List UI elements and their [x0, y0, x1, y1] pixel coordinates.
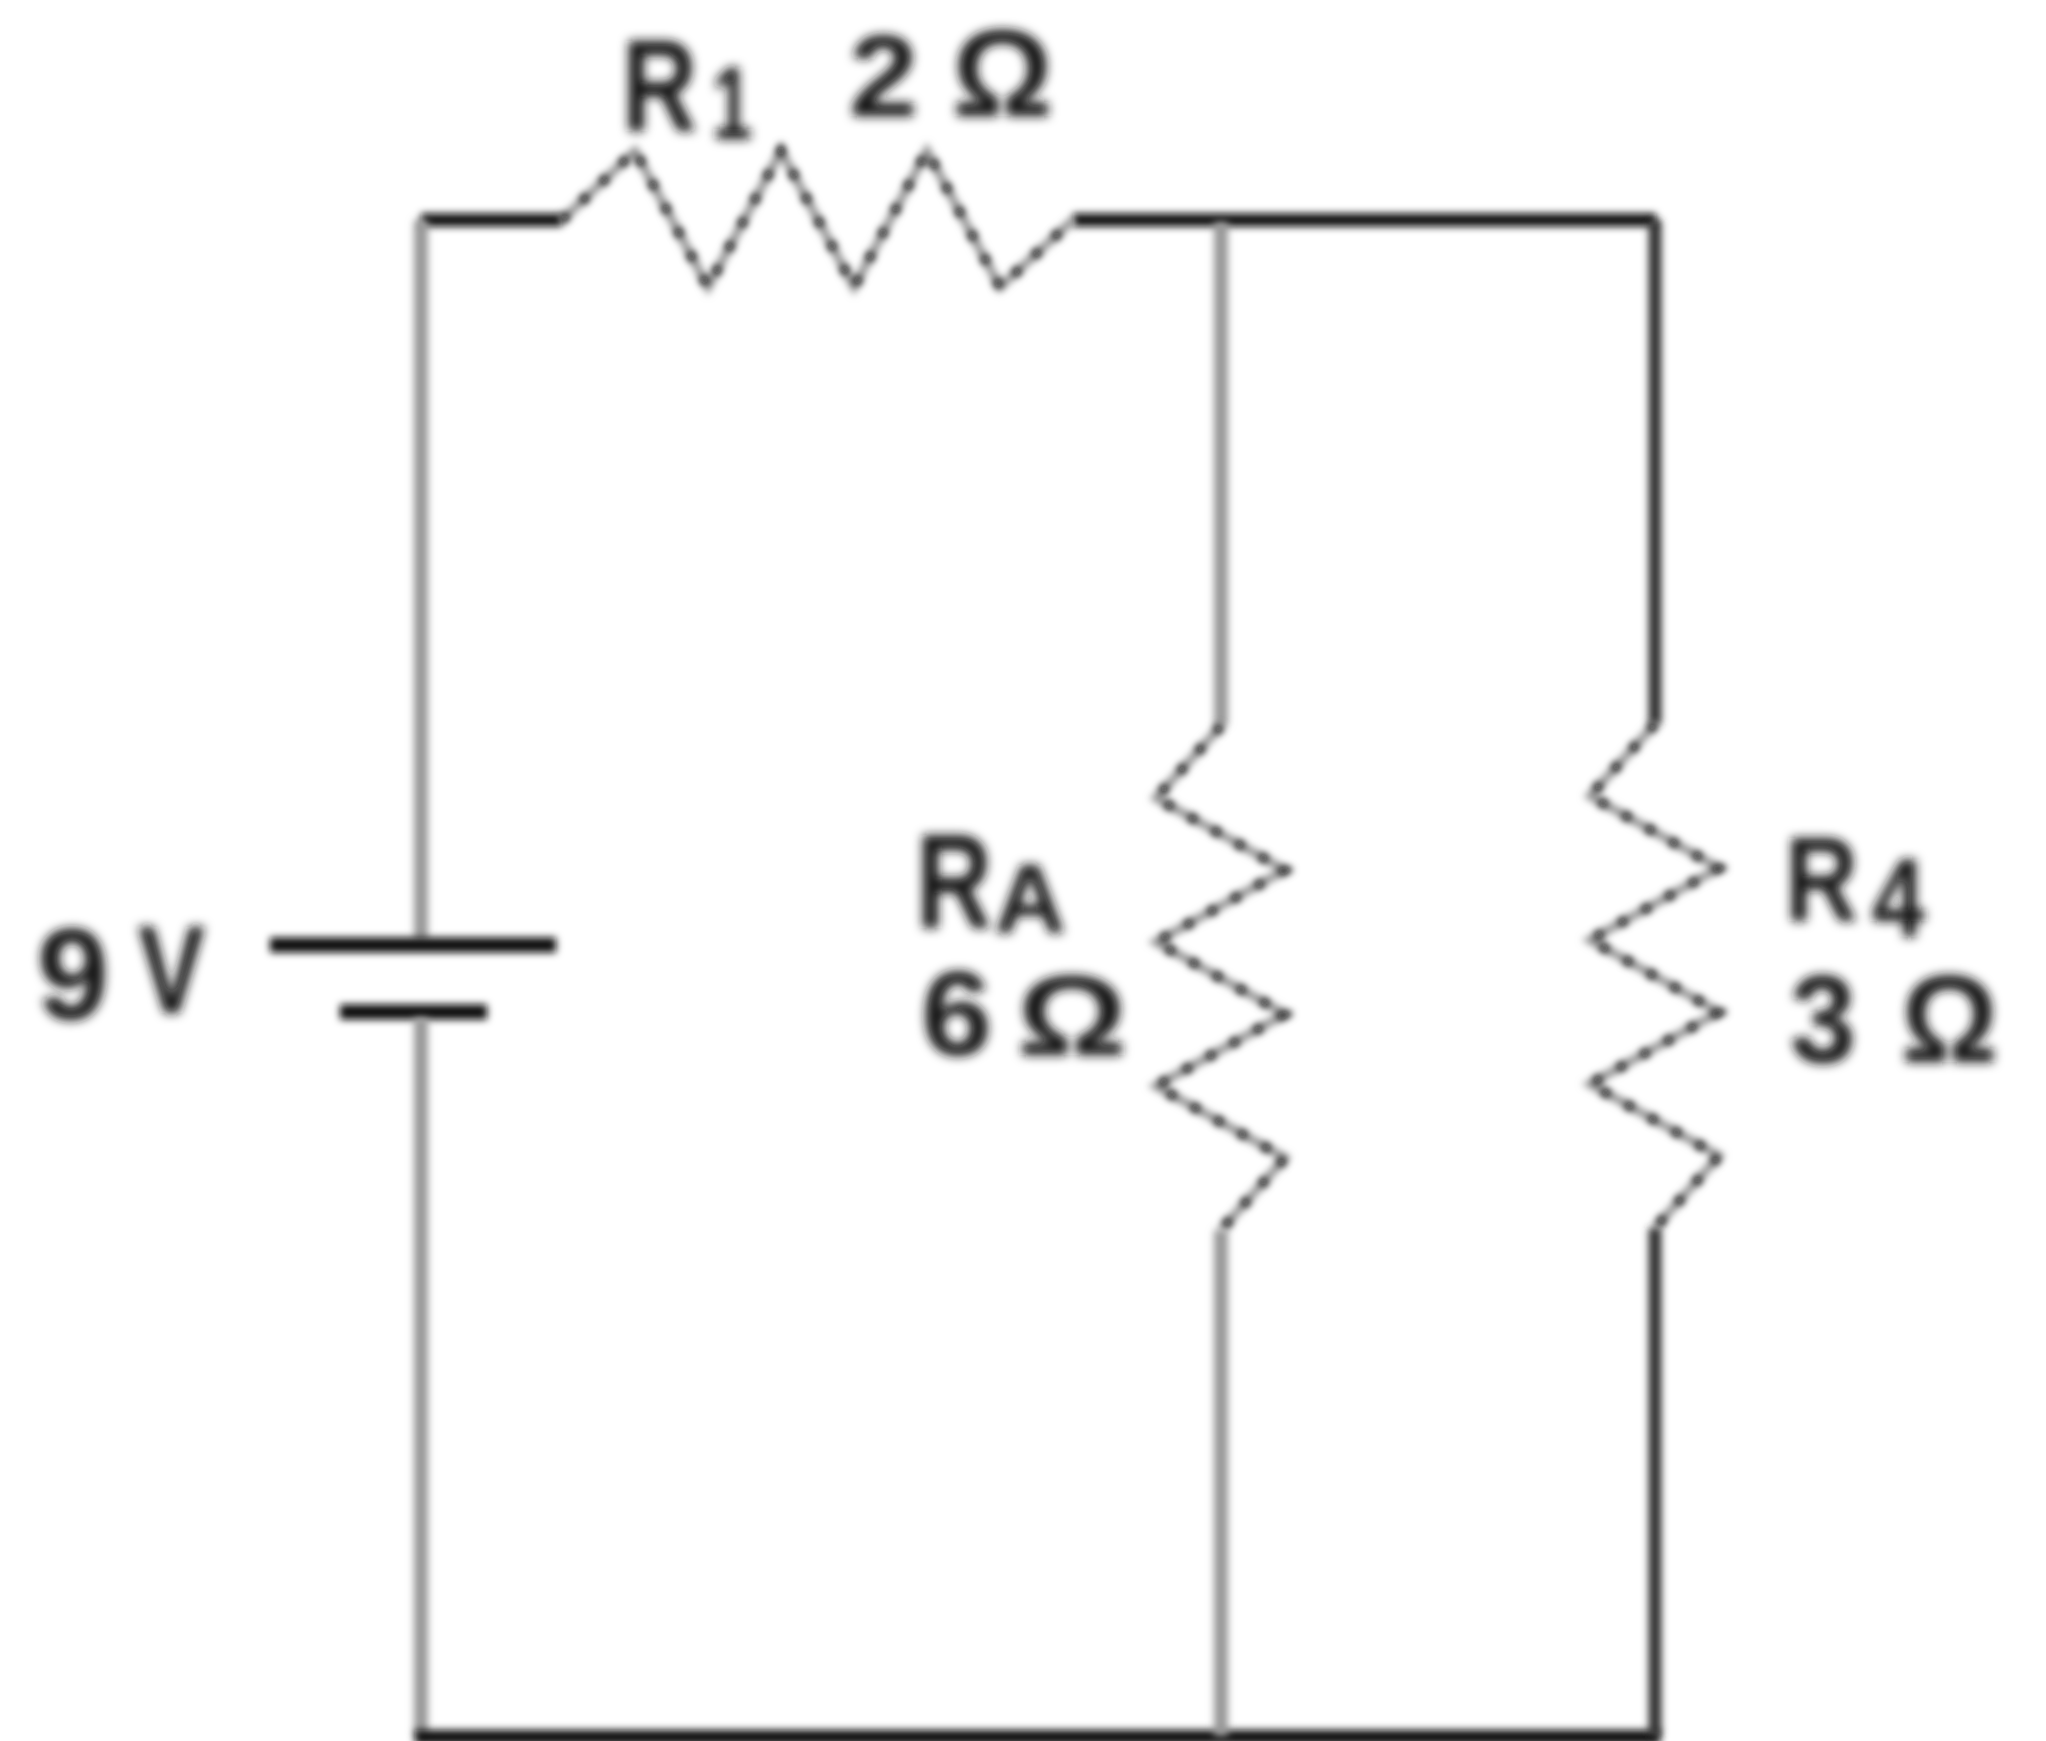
wire top-right (R1 to top node): [1073, 214, 1656, 227]
wire right lower (R4 to bottom node): [1649, 1228, 1662, 1736]
battery V1 positive plate: [270, 938, 556, 953]
svg-text:R: R: [1785, 811, 1858, 947]
svg-text:Ω: Ω: [952, 6, 1053, 143]
svg-text:R: R: [916, 806, 992, 957]
resistor RA: [1156, 726, 1285, 1230]
svg-text:3: 3: [1790, 951, 1856, 1089]
wire left upper (battery + lead): [414, 220, 428, 940]
wire top-left (battery + to R1): [421, 214, 562, 227]
svg-text:2: 2: [849, 11, 918, 141]
svg-text:4: 4: [1872, 836, 1925, 961]
wire middle upper (top node to RA): [1214, 222, 1228, 726]
svg-text:V: V: [138, 901, 205, 1040]
svg-text:Ω: Ω: [1017, 953, 1127, 1080]
resistor R1: [562, 151, 1073, 287]
wire right upper (top node to R4): [1649, 220, 1662, 724]
svg-text:1: 1: [712, 46, 752, 162]
svg-text:6: 6: [921, 947, 992, 1081]
svg-text:A: A: [994, 844, 1066, 954]
wire bottom (bottom node): [415, 1730, 1660, 1741]
wire left lower (battery - to bottom node): [414, 1018, 428, 1736]
wire middle lower (RA to bottom node): [1214, 1230, 1228, 1736]
svg-text:Ω: Ω: [1901, 951, 1998, 1089]
svg-text:R: R: [622, 12, 697, 159]
svg-text:9: 9: [37, 901, 109, 1047]
battery V1 negative plate: [340, 1005, 487, 1020]
resistor R4: [1590, 724, 1719, 1228]
